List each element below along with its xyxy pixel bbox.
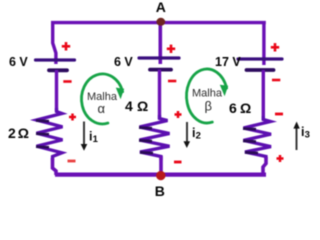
svg-text:3: 3 — [305, 130, 310, 141]
svg-text:1: 1 — [93, 134, 99, 145]
resistor R2 4 ohm zigzag — [139, 115, 170, 160]
polarity - battery V2 — [168, 80, 176, 83]
polarity + battery V3 — [271, 43, 279, 51]
label 2 ohm resistor R1 — [8, 125, 29, 141]
svg-text:Ω: Ω — [137, 98, 148, 114]
label 4 ohm resistor R2 — [125, 98, 148, 114]
battery V3 17V short plate — [247, 68, 274, 72]
polarity + battery V1 — [62, 42, 70, 50]
label i1 — [89, 130, 99, 146]
node B junction dot — [156, 171, 165, 180]
svg-text:Ω: Ω — [18, 125, 29, 141]
label i2 — [192, 126, 201, 142]
wire left branch battery to resistor — [55, 70, 58, 111]
node B label — [155, 183, 165, 199]
node A label — [156, 0, 166, 15]
polarity + battery V2 — [167, 45, 175, 53]
svg-text:6: 6 — [229, 100, 237, 116]
resistor R1 2 ohm zigzag — [36, 108, 63, 160]
wire right branch bottom — [263, 157, 266, 175]
svg-text:Ω: Ω — [240, 100, 251, 116]
battery V3 17V long plate — [238, 57, 282, 60]
polarity - resistor R3 — [275, 113, 283, 116]
polarity + resistor R2 — [175, 111, 182, 118]
battery V2 6V short plate — [150, 68, 171, 72]
wire left branch top — [53, 21, 56, 64]
label Malha alpha — [87, 91, 118, 116]
mesh loop arrow Malha beta — [187, 69, 229, 123]
label Malha beta — [192, 88, 223, 114]
label i3 — [301, 125, 310, 141]
wire top rail A — [51, 21, 266, 24]
battery V1 6V long plate — [36, 58, 75, 61]
wire middle branch top — [159, 21, 163, 64]
svg-text:α: α — [98, 101, 106, 116]
svg-text:A: A — [156, 0, 166, 15]
node A junction dot — [156, 18, 165, 26]
wire left branch bottom — [53, 158, 57, 175]
polarity - battery V1 — [63, 80, 71, 83]
label 6 V battery V2 — [114, 55, 133, 69]
polarity + resistor R1 — [69, 114, 76, 121]
wire right branch battery to resistor — [262, 70, 265, 120]
svg-text:4: 4 — [125, 98, 133, 114]
current arrow i2 — [184, 122, 191, 148]
resistor R3 6 ohm zigzag — [243, 116, 271, 159]
current arrow i1 — [81, 122, 88, 151]
svg-text:6 V: 6 V — [114, 55, 133, 69]
wire bottom rail B — [55, 173, 266, 177]
polarity + resistor R3 — [277, 155, 284, 162]
polarity - resistor R2 — [174, 161, 182, 164]
current arrow i3 — [293, 122, 299, 151]
label 6 V battery V1 — [9, 55, 28, 69]
svg-text:2: 2 — [8, 125, 16, 141]
wire middle branch bottom — [159, 156, 163, 175]
wire right branch top — [262, 21, 265, 65]
battery V1 6V short plate — [49, 68, 67, 72]
polarity - resistor R1 — [68, 160, 76, 163]
svg-text:β: β — [205, 98, 212, 113]
battery V2 6V long plate — [139, 56, 179, 59]
svg-text:6 V: 6 V — [9, 55, 28, 69]
svg-text:B: B — [155, 183, 165, 199]
wire middle branch battery to resistor — [158, 70, 161, 119]
svg-text:2: 2 — [196, 131, 201, 142]
polarity - battery V3 — [272, 79, 280, 82]
label 6 ohm resistor R3 — [229, 100, 251, 116]
svg-text:17 V: 17 V — [215, 55, 241, 69]
mesh loop arrow Malha alpha — [82, 74, 125, 124]
label 17 V battery V3 — [215, 55, 241, 69]
